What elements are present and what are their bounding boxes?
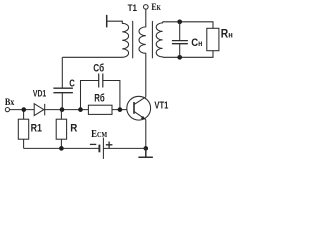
resistor R1 vertical stubs — [23, 110, 25, 149]
node Ек supply terminal — [144, 5, 149, 10]
node junction dot R/bias line — [59, 146, 64, 151]
node junction dot C/base line — [60, 107, 65, 112]
wire Сб branch right side — [103, 81, 120, 110]
node junction dot Сб/Rб right — [118, 107, 123, 112]
wire C bottom to base line — [61, 93, 63, 110]
wire tank bottom — [163, 51, 213, 58]
resistor R1 — [18, 119, 28, 139]
transformer T1 primary winding (middle) and collector wire — [139, 9, 146, 97]
battery minus sign — [90, 143, 96, 145]
svg-text:С: С — [69, 79, 75, 90]
transformer T1 feedback winding (left) with top wire and bottom wire to C — [62, 21, 128, 57]
resistor Rб — [88, 105, 112, 114]
node junction dot emitter/bias line — [144, 146, 149, 151]
svg-text:ЕК: ЕК — [151, 2, 161, 13]
ground — [138, 148, 153, 157]
svg-text:VD1: VD1 — [33, 89, 46, 99]
transistor VT1 emitter diagonal — [134, 111, 146, 119]
wire diode cathode to transistor base — [45, 109, 134, 111]
capacitor Сн stubs — [179, 22, 181, 58]
svg-text:Т1: Т1 — [128, 2, 137, 13]
resistor R stubs — [60, 110, 62, 149]
node junction dot input/R1 — [21, 107, 26, 112]
capacitor Сн — [172, 41, 188, 44]
wire battery plus to emitter node — [103, 147, 145, 149]
battery plus sign — [106, 142, 113, 149]
battery Есм negative plate — [98, 145, 100, 153]
svg-text:Сб: Сб — [93, 63, 104, 75]
svg-text:VT1: VT1 — [154, 101, 168, 112]
svg-text:R1: R1 — [31, 123, 42, 135]
svg-text:Rн: Rн — [221, 28, 233, 41]
svg-text:R: R — [70, 123, 77, 135]
transformer T1 core line left — [132, 21, 134, 58]
transformer T1 core line right — [151, 21, 153, 58]
transistor VT1 circle — [127, 96, 151, 120]
svg-text:Вх: Вх — [5, 98, 15, 108]
wire emitter down — [145, 120, 147, 149]
node junction dot Сн bottom — [177, 55, 182, 60]
diode VD1 — [34, 104, 45, 116]
svg-text:ЕСМ: ЕСМ — [91, 129, 107, 140]
wire bottom bias line (R1 to battery minus plate) — [24, 147, 100, 149]
terminal bar top left of T1 — [106, 15, 108, 28]
transistor VT1 emitter arrow — [141, 116, 146, 119]
svg-text:Сн: Сн — [191, 37, 202, 49]
capacitor C — [53, 88, 73, 93]
battery Есм positive plate — [102, 138, 104, 159]
capacitor Сб — [99, 74, 103, 88]
transistor VT1 base bar — [133, 102, 135, 114]
wire input to diode anode — [10, 109, 34, 111]
node junction dot Сн top — [177, 19, 182, 24]
transistor VT1 collector diagonal — [134, 97, 146, 105]
node junction dot Сб/Rб left — [78, 107, 83, 112]
svg-text:Rб: Rб — [94, 93, 105, 105]
wire tank top — [163, 22, 213, 29]
node Вх input terminal — [5, 108, 9, 112]
resistor R — [56, 119, 66, 139]
resistor Rн — [207, 28, 219, 50]
transformer T1 secondary winding (right) — [156, 22, 162, 58]
capacitor C top connection wire from feedback winding — [61, 57, 63, 88]
wire Сб branch left side — [81, 81, 99, 110]
